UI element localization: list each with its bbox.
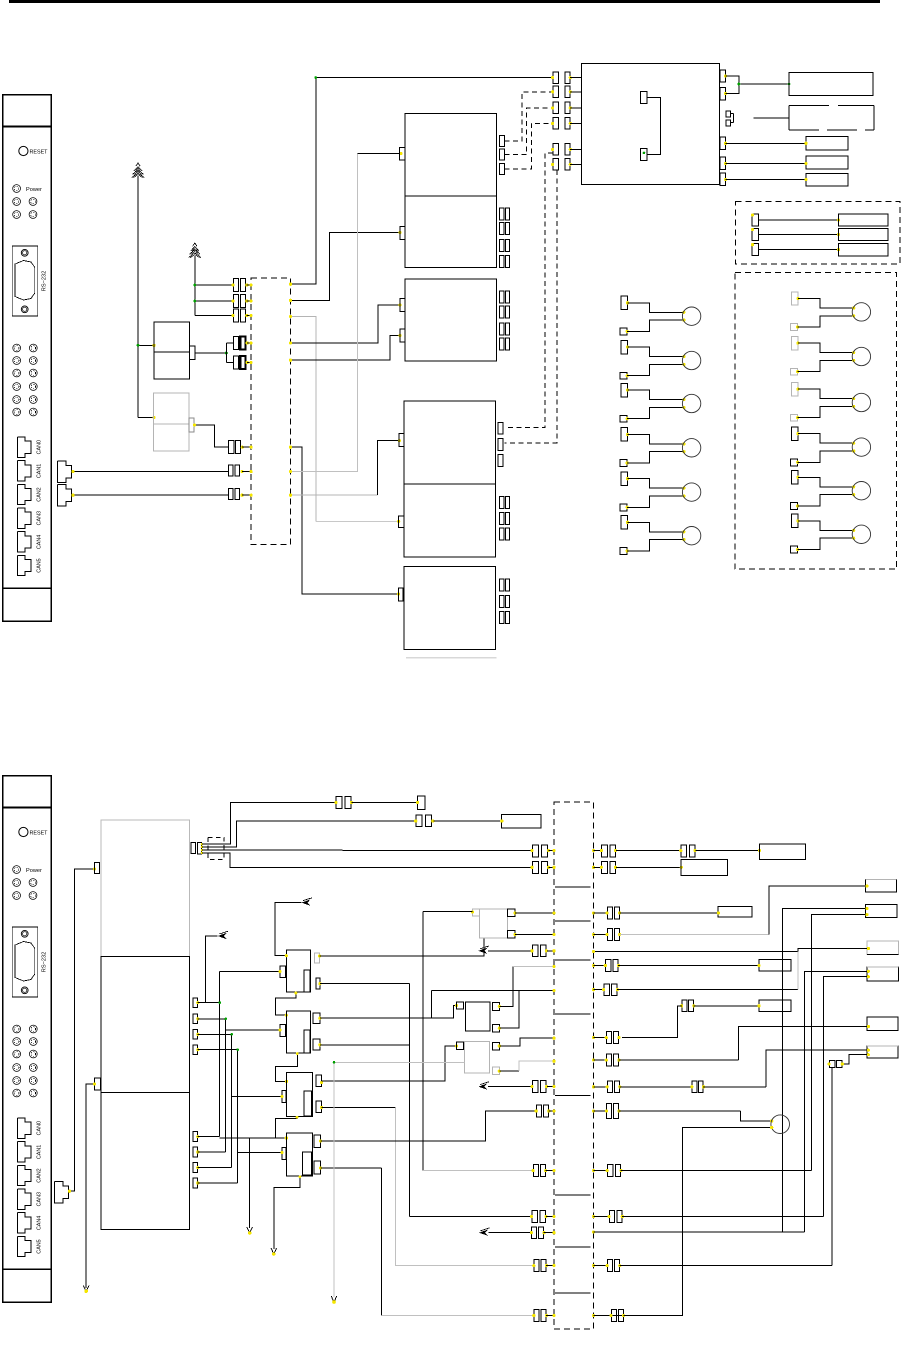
connector pair J4 (234, 337, 252, 350)
pin A1 right 2 (499, 149, 504, 160)
module box T1 (789, 73, 873, 96)
pin K5 right2 (316, 1101, 322, 1113)
CAN2 mating plug P2 (58, 485, 72, 507)
wire G1 to box K1 (138, 344, 154, 346)
svg-text:CAN1: CAN1 (37, 1145, 43, 1159)
ECU box B2 (404, 484, 495, 557)
connector pair J7 (229, 465, 252, 476)
lamp L11 (790, 471, 870, 510)
ground symbol G1 (136, 163, 140, 166)
wire arrow branch (249, 1138, 251, 1228)
wire row D right (592, 866, 602, 869)
connector pair J20 (336, 796, 342, 808)
pin M1 right q2 (193, 1147, 198, 1157)
wire G2 row2 (195, 300, 234, 302)
module K9 (ghost) (479, 909, 507, 938)
pin K5 left (282, 1090, 286, 1102)
distribution box X3 (dashed) (554, 802, 594, 1329)
Power LEDs U3 (13, 866, 42, 900)
row 1217 right (592, 1211, 824, 1223)
pin A3 left 1 (400, 298, 405, 311)
load box F1 (865, 879, 896, 892)
wire X2 w1 (202, 802, 336, 844)
lamp L6 (620, 516, 701, 555)
X3 internal link (555, 1013, 590, 1015)
svg-text:CAN1: CAN1 (37, 464, 43, 478)
pin K4 right1 (313, 1013, 320, 1024)
connector pair J14 (551, 159, 582, 171)
wire K4 cascade (275, 1053, 297, 1082)
wire K8r2 to X3 (gray) (500, 1070, 520, 1072)
CAN0 connector U3 (17, 1118, 42, 1138)
dashed link A1p1 (504, 92, 553, 141)
internal jumper wire (647, 97, 661, 154)
wire X1 CAN2 net (291, 494, 378, 496)
wire gray to arrow A8 (334, 1061, 465, 1063)
wire X2 w4 (202, 853, 532, 867)
connector pair J2 (232, 295, 252, 308)
wire K3 riser to arrow A5 (275, 903, 302, 956)
wire S1 to T2 (754, 117, 789, 119)
relay K7 (465, 1002, 490, 1031)
wire K3 cascade (275, 992, 296, 1015)
row 1171 right (592, 915, 865, 1177)
module box E4 (681, 860, 727, 876)
terminator R3 (751, 243, 888, 256)
Power LEDs U1 (13, 185, 42, 219)
connector pair J32 (532, 1227, 537, 1239)
wire K9 left net (423, 911, 473, 913)
CAN3 mating plug P3 (55, 1182, 69, 1204)
dashed link J14 down (505, 170, 557, 443)
pin K9 right1 (508, 909, 516, 916)
row 1232 right (592, 1230, 805, 1233)
connector pair A3-1 (500, 291, 504, 303)
wire bus 1138 (220, 1137, 287, 1139)
module box T3c (806, 174, 848, 187)
wire X1 to J9 row (291, 78, 553, 285)
row 965 right (592, 960, 791, 972)
load box F4 (867, 967, 899, 981)
connector pair A3-3 (500, 323, 504, 335)
svg-text:CAN0: CAN0 (37, 440, 43, 454)
pin B1 right 3 (498, 455, 503, 467)
relay K2 (ghost) (153, 393, 194, 451)
status LED grid U1 (13, 344, 37, 416)
connector pair B3-1 (500, 579, 504, 591)
wire K3 gray pin (319, 938, 484, 956)
row 912 right (592, 907, 752, 919)
dashed link A1p3 (504, 123, 553, 169)
CAN1 mating plug P1 (58, 461, 72, 483)
wire M1 pin2 to ground (86, 1084, 94, 1288)
ground symbol G2 (193, 243, 197, 246)
pin B1 left (399, 433, 404, 446)
internal jumper pin b (641, 149, 648, 161)
connector pair J22 (532, 845, 538, 857)
row 1087 right (592, 1081, 766, 1093)
CAN5 connector U1 (17, 555, 42, 575)
X3 internal link (555, 959, 590, 961)
lamp L8 (790, 336, 870, 375)
svg-text:CAN2: CAN2 (37, 487, 43, 501)
node on X1 left edge (250, 494, 253, 497)
connector pair J9 (551, 72, 582, 84)
arrow A9 (478, 948, 487, 954)
wire bus 409 down (408, 984, 410, 1217)
svg-text:CAN3: CAN3 (37, 1192, 43, 1206)
pin B1 right 1 (498, 422, 503, 434)
connector pair J28 (532, 1081, 538, 1093)
connector pair B3-2 (500, 595, 504, 607)
connector X2 breakout (dashed outline) (208, 837, 224, 859)
connector pair J1 (232, 279, 252, 292)
svg-text:Power: Power (26, 868, 42, 874)
load box F5 (867, 1017, 898, 1031)
ECU box A3 (405, 279, 496, 361)
wire X1 to A2 pin (291, 233, 401, 301)
connector pair A2-4 (500, 255, 504, 267)
pin K9 left (ghost) (473, 909, 480, 916)
terminal E1 (418, 796, 426, 809)
controller box U2 (582, 63, 720, 184)
pin K3 right1 (ghost) (314, 953, 319, 963)
row 1315 right pair (594, 1310, 683, 1322)
pin A2 left (400, 227, 405, 240)
status LED grid U3 (13, 1025, 37, 1097)
svg-text:RESET: RESET (30, 149, 49, 155)
wire F6 w1 link (766, 1050, 867, 1087)
wire X1 to A3 pin1 (291, 305, 401, 343)
svg-text:RS−232: RS−232 (42, 952, 48, 972)
pin M1 right q4 (193, 1178, 198, 1188)
pin A1 right 3 (499, 164, 504, 175)
wire A11 to J32 (489, 1232, 532, 1234)
wire X1 to B2 pin (gray) (291, 316, 317, 521)
RESET button U1 (19, 146, 48, 155)
load box F6 (867, 1046, 898, 1058)
wire J35 stub down (831, 1068, 833, 1266)
module box T3b (806, 156, 848, 169)
wire J26 to E4 (616, 866, 681, 868)
ECU stack2 shadow (406, 657, 497, 659)
wire K1 to pairs (195, 343, 234, 363)
relay K8 (465, 1042, 490, 1073)
row 1266 right (592, 1260, 832, 1272)
wire U2e to T3c (726, 178, 807, 180)
pin K3 right2 (316, 978, 320, 989)
pin K3 left (280, 966, 286, 978)
lamp L1 (620, 296, 701, 335)
pin M1 right q1 (193, 1132, 198, 1142)
harness breakout X1 (dashed) (251, 278, 290, 545)
module box E2 (502, 815, 541, 828)
CAN0 connector U1 (17, 437, 42, 457)
wire F6 w2 to J35 (842, 1055, 867, 1064)
svg-text:CAN3: CAN3 (37, 511, 43, 525)
internal jumper pin a (641, 92, 648, 104)
CAN4 connector U1 (17, 532, 42, 552)
wire X1 to A3 pin2 (291, 335, 401, 360)
wire G2 row3 (195, 315, 234, 317)
wire U2d to T3b (726, 162, 807, 164)
wire F4 w2 link (824, 977, 867, 1217)
wire A10 to J28 (488, 1086, 532, 1088)
pin U2 right a (720, 70, 726, 82)
row 1038 pair (592, 1032, 621, 1044)
wire K9 r2 to X3 (515, 933, 554, 935)
arrow A7 (271, 1248, 277, 1254)
connector X2b pin (197, 842, 201, 854)
svg-text:Power: Power (26, 187, 42, 193)
terminator R2 (751, 228, 888, 241)
svg-text:CAN5: CAN5 (37, 558, 43, 572)
connector pair J6 (229, 441, 252, 454)
X3 internal link (555, 1246, 590, 1248)
pin K8 right1 (493, 1042, 500, 1050)
wire J23 to J24 (616, 850, 681, 852)
connector pair J23 (602, 845, 608, 857)
svg-text:RESET: RESET (30, 830, 49, 836)
wire U2c to T3a (726, 142, 807, 144)
wire CAN1 to connector (72, 471, 229, 473)
row 1111 right (592, 1104, 773, 1123)
wire K9 r1 to X3 (515, 912, 554, 914)
relay K5 (287, 1073, 313, 1117)
dashed link J13 down (505, 153, 553, 428)
ECU box B1 (404, 401, 495, 484)
wire J20 to E1 (351, 801, 417, 803)
wire K7r1 to X3 (500, 966, 513, 1006)
pin K4 left (280, 1024, 286, 1036)
connector pair B2-1 (500, 496, 504, 508)
wire K5 pin1 to K8 (322, 1046, 457, 1081)
pin K8 right2 (ghost) (493, 1067, 500, 1074)
pin A3 left 2 (400, 329, 405, 342)
ECU box B3 (404, 566, 495, 649)
load box F3 (ghost) (867, 941, 899, 955)
wire row990 left ext (431, 989, 519, 991)
wire X1 CAN1 net (gray) (291, 154, 358, 472)
pin M1 left 1 (94, 862, 99, 873)
RS-232 DB9 connector U3 (12, 927, 47, 997)
relay K1 (154, 322, 195, 379)
arrow A8 (331, 1296, 337, 1302)
IO box M1 section1 (101, 820, 190, 957)
connector pair A2-1 (500, 208, 504, 220)
module box T3a (806, 137, 848, 150)
connector X2a (191, 842, 195, 853)
lamp L9 (790, 382, 870, 421)
arrow A6 (247, 1227, 253, 1233)
connector pair J34 (534, 1310, 539, 1322)
X3 internal link (555, 920, 590, 922)
node on X1 left edge (250, 470, 253, 473)
wire K6 pin1 to row (321, 1111, 537, 1141)
pin K8 left (456, 1042, 463, 1049)
svg-text:CAN4: CAN4 (37, 535, 43, 549)
connector pair B3-3 (500, 611, 504, 623)
terminator R1 (751, 213, 888, 226)
pin K6 left (282, 1148, 286, 1160)
connector pair J33 (534, 1260, 539, 1272)
RS-232 DB9 connector U1 (12, 246, 47, 316)
X3 internal link (555, 1292, 590, 1294)
wire bus p4-q4 (198, 1048, 282, 1183)
pin K4 right2 (313, 1039, 320, 1050)
node on X1 left edge (250, 314, 253, 317)
connector pair A2-3 (500, 239, 504, 251)
connector pair J24 (681, 845, 687, 857)
controller module panel U1 (3, 95, 52, 621)
wire bus p1-q1 (198, 972, 280, 1137)
node on X1 left edge (250, 299, 253, 302)
wire L13 to row 1315 (594, 1128, 772, 1316)
ground arrow G3 (83, 1286, 89, 1292)
pin U2 right d (720, 157, 726, 169)
wire F2 w1 link (782, 909, 865, 1232)
connector pair J30 (533, 1165, 538, 1177)
wire P3 to M1 pin (69, 869, 95, 1191)
connector pair A3-2 (500, 306, 504, 318)
row 951 right (594, 949, 867, 952)
connector pair B2-3 (500, 528, 504, 540)
wire K2 to pair (194, 425, 229, 447)
pin M1 right p2 (193, 1014, 198, 1023)
wire X2 w2 (202, 821, 416, 847)
pin M1 right p3 (193, 1030, 198, 1039)
connector pair A2-2 (500, 223, 504, 235)
svg-text:CAN2: CAN2 (37, 1168, 43, 1182)
arrow A4 (218, 933, 227, 939)
IO box M1 section2 (101, 957, 190, 1093)
CAN1 connector U1 (17, 461, 42, 481)
RESET button U3 (19, 827, 48, 836)
pin M1 right p4 (193, 1045, 198, 1054)
row 990 right (592, 952, 798, 996)
arrow A5 (302, 899, 311, 905)
arrow A10 (478, 1083, 487, 1089)
CAN5 connector U3 (17, 1236, 42, 1256)
pin M1 right q3 (193, 1163, 198, 1173)
lamp L4 (620, 428, 701, 467)
node on X1 left edge (250, 341, 253, 344)
lamp L5 (620, 472, 701, 511)
X3 internal link (555, 886, 590, 888)
pin K6 right2 (314, 1161, 321, 1174)
pin B2 left (399, 516, 405, 528)
connector pair J11 (551, 102, 582, 114)
wire bus p3-q3 (198, 1033, 282, 1168)
pin A1 right 1 (499, 135, 504, 146)
wire X2 w3 (202, 849, 532, 852)
lamp L3 (620, 383, 701, 422)
pin B1 right 2 (498, 438, 503, 450)
pin K7 right2 (493, 1025, 500, 1032)
row 1060 right (592, 1027, 867, 1067)
wire F4 w1 link (804, 971, 867, 1232)
wire X1 to B3 pin (291, 447, 399, 594)
load box F2 (865, 904, 897, 917)
pin K5 right1 (316, 1075, 322, 1087)
wire K6 bottom (274, 1176, 300, 1249)
lamp L13 (771, 1115, 790, 1134)
sensor S1 (726, 111, 734, 126)
wire U2 to T1 (726, 76, 739, 94)
wire J24 to E3 (695, 850, 759, 852)
wire A9 to J27 (488, 950, 532, 952)
node on X1 left edge (250, 283, 253, 286)
IO box M1 section3 (101, 1092, 190, 1229)
CAN2 connector U3 (17, 1165, 42, 1185)
wire K4 pin1 to K7 (320, 1006, 457, 1019)
arrow A11 (479, 1230, 488, 1236)
relay K6 (286, 1133, 312, 1176)
connector pair J13 (551, 144, 582, 156)
row 1006 right (622, 1000, 791, 1038)
wire K7r2 to X3 (500, 990, 554, 1028)
lamp L12 (790, 514, 870, 553)
X3 internal link (555, 1095, 590, 1097)
wire bus p2-q2 (198, 1018, 280, 1153)
module box E3 (759, 844, 805, 860)
wire K3 pin2 (320, 983, 409, 985)
pin A1 left (400, 147, 406, 160)
connector pair A3-4 (500, 338, 504, 350)
wire G1 down (137, 176, 139, 418)
svg-text:RS−232: RS−232 (42, 271, 48, 291)
connector pair J10 (551, 86, 582, 98)
X3 internal link (555, 1194, 590, 1196)
pin K6 right1 (314, 1135, 321, 1147)
wire K5 cascade (275, 1117, 297, 1139)
CAN3 connector U1 (17, 508, 42, 528)
connector pair J21 (416, 815, 422, 826)
svg-text:CAN4: CAN4 (37, 1216, 43, 1230)
connector pair J25 (532, 862, 538, 874)
CAN4 connector U3 (17, 1213, 42, 1233)
pin K7 left (456, 1002, 463, 1009)
CAN3 connector U3 (17, 1189, 42, 1209)
connector pair J31 (532, 1211, 538, 1223)
module box T2 (open) (789, 106, 874, 130)
wire K8r1 to X3 (500, 1038, 554, 1046)
connector pair J8 (229, 489, 252, 500)
svg-text:CAN0: CAN0 (37, 1121, 43, 1135)
connector pair B2-2 (500, 513, 504, 525)
node on X1 left edge (250, 446, 253, 449)
svg-text:CAN5: CAN5 (37, 1239, 43, 1253)
wire J21 to E2 (433, 820, 501, 822)
group box DG2 (dashed) (735, 273, 897, 570)
pin U2 right c (720, 137, 726, 149)
node on X1 left edge (250, 361, 253, 364)
pin K9 right2 (508, 931, 516, 939)
wire to arrow A4 (206, 936, 218, 1003)
lamp L10 (790, 427, 870, 466)
wire CAN2 to connector (72, 494, 229, 496)
lamp L7 (790, 292, 870, 331)
wire G2 down (194, 256, 196, 316)
connector pair J3 (232, 309, 252, 322)
relay K3 (286, 950, 310, 992)
connector pair J35 (829, 1060, 834, 1067)
CAN1 connector U3 (17, 1142, 42, 1162)
relay K4 (286, 1011, 310, 1053)
connector pair J29 (537, 1105, 542, 1117)
wire K6 pin2 to row (321, 1167, 382, 1169)
pin U2 right b (720, 87, 726, 99)
